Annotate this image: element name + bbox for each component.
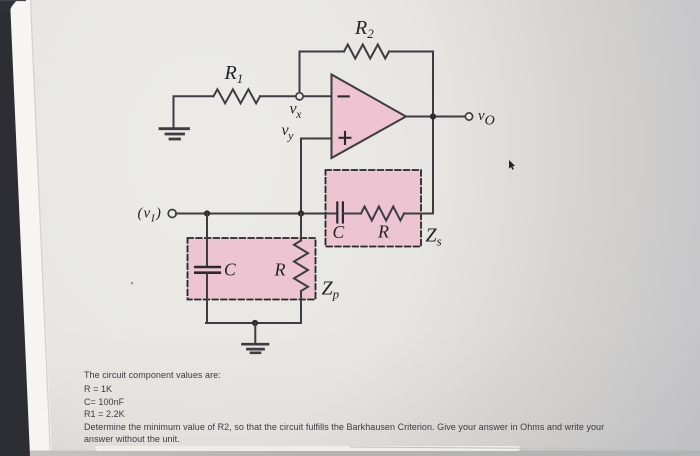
wire: left shunt branch upper (206, 214, 208, 266)
svg-text:vO: vO (478, 108, 495, 129)
svg-text:R: R (377, 222, 389, 242)
wire: ground stem (254, 323, 256, 343)
node D junction dot (252, 320, 258, 326)
wire: R series to right leg (404, 213, 433, 215)
wire: bottom rail (206, 322, 301, 324)
wire: feedback right leg down to output node (389, 51, 433, 53)
svg-text:C: C (333, 222, 345, 242)
svg-text:Zs: Zs (426, 225, 442, 249)
wire: input to R1 (174, 96, 214, 127)
wire: right vertical leg (432, 52, 434, 214)
ground G1 (160, 129, 189, 139)
svg-text:vy: vy (282, 122, 295, 143)
svg-text:C: C (224, 260, 236, 280)
wire: R1 to inverting input (260, 95, 332, 97)
node C junction dot (298, 210, 304, 216)
wire: right shunt branch lower (300, 291, 302, 323)
node: output junction dot (430, 113, 436, 119)
ground G2 (243, 344, 269, 353)
svg-text:vx: vx (290, 101, 303, 122)
terminal vI open circle (168, 210, 176, 218)
impedance box Zs (326, 170, 422, 247)
resistor R1 (214, 89, 261, 103)
capacitor C shunt (195, 267, 220, 273)
wire: op-amp output (406, 116, 466, 118)
resistor R series (361, 207, 404, 221)
wire: feedback top from node A up and across (300, 52, 345, 93)
mouse cursor (509, 160, 515, 170)
impedance box Zp (188, 238, 316, 300)
problem text (84, 370, 221, 380)
capacitor C series (337, 203, 343, 223)
wire: left shunt branch lower (206, 274, 208, 323)
op-amp U1 (332, 75, 407, 159)
svg-text:R1: R1 (224, 62, 244, 86)
wire: right shunt branch upper (300, 214, 302, 241)
terminal vO open circle (465, 113, 472, 120)
svg-text:Zp: Zp (322, 278, 340, 302)
svg-text:R2: R2 (354, 17, 374, 41)
resistor R shunt (294, 241, 308, 292)
svg-text:(vI): (vI) (138, 206, 161, 225)
node B junction dot (204, 210, 210, 216)
node A: summing node open circle (296, 93, 303, 100)
wire: cap to resistor (343, 213, 361, 215)
resistor R2 (344, 45, 389, 59)
wire: non-inverting input leg (301, 139, 332, 212)
svg-text:R: R (274, 260, 286, 280)
wire: main horizontal rail (176, 213, 337, 215)
